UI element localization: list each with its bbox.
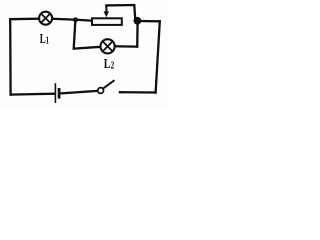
slider arrow <box>104 5 109 17</box>
wire left side <box>9 19 12 94</box>
wire L2 to riser <box>115 45 138 48</box>
wire riser up to node B <box>136 22 139 47</box>
lamp L1 <box>39 12 52 25</box>
battery long plate <box>54 83 56 103</box>
node B <box>134 17 142 25</box>
wire right side <box>156 21 160 92</box>
wire node A down to L2 branch <box>74 20 100 49</box>
switch S lever <box>103 80 115 88</box>
switch S pivot <box>98 88 104 94</box>
wire node A to rheostat <box>76 20 93 21</box>
wire bottom-right corner to switch <box>120 91 156 94</box>
wire node B to top-right corner <box>138 20 160 23</box>
wire switch to battery <box>60 91 97 94</box>
wire top-left to L1 <box>10 18 38 21</box>
lamp L2 <box>101 39 115 53</box>
rheostat R <box>92 18 122 25</box>
wire slider to node B <box>106 5 135 19</box>
node A <box>73 17 78 22</box>
wire battery to bottom-left corner <box>11 93 55 96</box>
wire L1 to node A <box>53 18 76 21</box>
battery short plate <box>58 88 61 99</box>
